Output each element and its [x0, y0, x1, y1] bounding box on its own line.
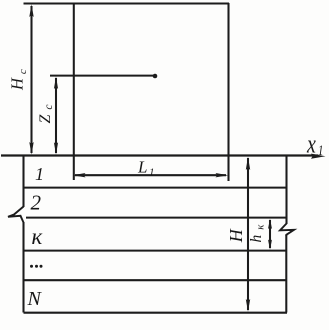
svg-text:к: к [32, 224, 43, 249]
svg-text:hк: hк [248, 220, 266, 243]
svg-text:Zс: Zс [37, 99, 55, 123]
svg-text:1: 1 [35, 164, 44, 184]
svg-text:N: N [27, 288, 43, 310]
svg-text:Н: Н [226, 228, 246, 243]
svg-text:2: 2 [31, 191, 42, 215]
svg-text:Нс: Нс [8, 65, 29, 91]
svg-text:L1: L1 [137, 158, 154, 179]
svg-text:x1: x1 [306, 130, 324, 159]
